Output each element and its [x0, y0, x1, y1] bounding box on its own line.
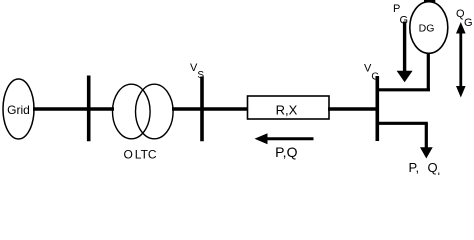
svg-text:P: P	[393, 3, 400, 15]
svg-text:L: L	[438, 172, 444, 176]
grid source (Grid)	[3, 79, 34, 139]
cropped wire mark above DG	[424, 0, 435, 2]
DG source	[410, 2, 448, 54]
wire VG bus to load	[377, 122, 428, 125]
svg-text:DG: DG	[419, 23, 435, 35]
load arrow	[420, 123, 433, 158]
transformer OLTC secondary winding	[136, 84, 174, 139]
wire VG bus to DG	[377, 88, 430, 91]
svg-text:P,: P,	[409, 160, 420, 175]
svg-text:Grid: Grid	[7, 103, 30, 117]
line impedance R,X	[248, 96, 330, 119]
power flow arrow P,Q	[255, 133, 314, 144]
transformer OLTC primary winding	[113, 84, 151, 139]
busbar VS	[200, 77, 204, 142]
svg-text:Q: Q	[428, 160, 438, 175]
busbar VG	[375, 76, 379, 141]
wire riser to DG	[427, 50, 430, 91]
double arrow Q_G	[456, 22, 466, 98]
wire R,X to VG bus	[328, 107, 377, 111]
wire grid to transformer	[33, 107, 114, 111]
svg-text:R,X: R,X	[276, 103, 298, 118]
svg-text:OLTC: OLTC	[123, 148, 156, 162]
busbar B1	[87, 76, 91, 142]
arrow P_G injection	[397, 22, 413, 83]
svg-text:P,Q: P,Q	[275, 144, 297, 160]
wire transformer to R,X line	[172, 107, 248, 111]
svg-text:G: G	[464, 17, 473, 29]
